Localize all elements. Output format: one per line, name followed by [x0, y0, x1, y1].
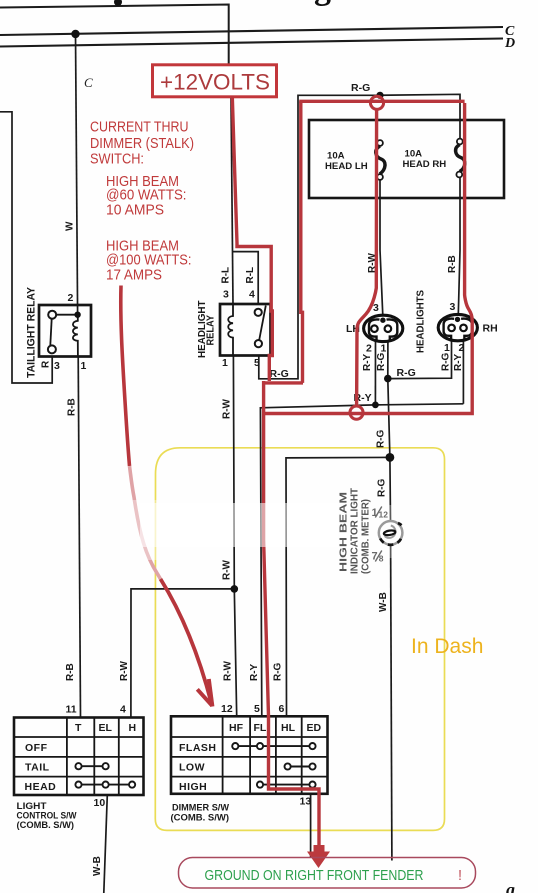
annotation +12VOLTS box — [153, 65, 277, 97]
svg-text:HIGH: HIGH — [179, 781, 207, 793]
wire bus C — [0, 27, 503, 35]
svg-text:1: 1 — [81, 360, 87, 372]
svg-text:g: g — [505, 880, 515, 893]
svg-text:R-B: R-B — [65, 663, 76, 681]
wire W: node C to taillight relay pin 2 — [76, 34, 78, 315]
svg-text:1: 1 — [444, 342, 450, 354]
svg-text:R-G: R-G — [376, 352, 387, 371]
annotation red path RH fuse to lamp to bus — [265, 103, 472, 414]
label 1/12 — [372, 507, 389, 520]
dimmer contacts HIGH row — [257, 782, 316, 788]
svg-text:!: ! — [458, 868, 462, 884]
svg-text:10 AMPS: 10 AMPS — [106, 203, 164, 219]
headlight LH — [364, 315, 403, 341]
svg-text:R-B: R-B — [447, 255, 458, 273]
svg-text:HIGH BEAM: HIGH BEAM — [339, 492, 350, 572]
svg-text:W-B: W-B — [378, 592, 389, 612]
node: junction dot top border — [114, 0, 122, 6]
svg-text:3: 3 — [450, 301, 456, 313]
svg-text:10: 10 — [94, 797, 106, 809]
headlight RH — [438, 314, 477, 340]
wire R-Y: RH headlight pin 2 down — [462, 340, 464, 404]
svg-text:FL: FL — [254, 722, 267, 734]
svg-text:ED: ED — [307, 722, 322, 734]
taillight relay box — [39, 305, 91, 357]
wire left edge to taillight relay pin 3 — [0, 112, 52, 383]
svg-text:+12VOLTS: +12VOLTS — [160, 70, 270, 95]
svg-text:R-W: R-W — [223, 660, 234, 681]
wire bus D — [0, 39, 503, 47]
node: junction dot indicator R-G — [386, 453, 395, 462]
svg-text:12: 12 — [221, 703, 233, 715]
dimmer contacts FLASH row — [232, 743, 315, 749]
svg-text:CONTROL S/W: CONTROL S/W — [17, 811, 77, 821]
svg-text:D: D — [504, 36, 515, 51]
wire R-G: LH headlight pin 1 down — [387, 341, 389, 379]
svg-text:8: 8 — [379, 554, 384, 564]
svg-text:3: 3 — [54, 360, 60, 372]
wire R-Y: LH headlight pin 2 down — [374, 341, 376, 405]
svg-text:R-W: R-W — [222, 398, 233, 419]
dimmer contacts LOW row — [285, 763, 316, 769]
svg-text:CURRENT THRU: CURRENT THRU — [90, 120, 189, 136]
wire R-G branch to dimmer pin 6 — [286, 457, 390, 716]
svg-text:LIGHT: LIGHT — [17, 801, 47, 811]
annotation red path +12V to headlight relay — [232, 97, 272, 382]
svg-text:DIMMER S/W: DIMMER S/W — [172, 803, 229, 813]
svg-text:2: 2 — [366, 343, 372, 355]
svg-text:HEADLIGHTS: HEADLIGHTS — [416, 290, 427, 353]
wire R-G feed to fuse RH — [380, 94, 460, 139]
wire R-Y bus to dimmer — [260, 404, 463, 717]
wire R-B: taillight relay pin 1 to light control pin 11 — [78, 356, 80, 717]
light control switch box and grid — [14, 718, 144, 796]
headlight relay internals — [228, 304, 266, 356]
svg-text:12: 12 — [379, 510, 389, 520]
wire R-W branch to light control pin 4 — [131, 589, 234, 718]
svg-text:TAILLIGHT RELAY: TAILLIGHT RELAY — [26, 286, 38, 378]
node: junction dot R-W tee — [231, 585, 239, 593]
label HIGH BEAM INDICATOR LIGHT (COMB. METER) — [339, 488, 372, 574]
svg-text:5: 5 — [254, 357, 260, 369]
annotation red loop at R-Y junction — [350, 406, 363, 419]
wire R-G: bus to indicator junction — [388, 379, 391, 522]
svg-text:RELAY: RELAY — [206, 315, 217, 346]
In Dash label — [411, 635, 483, 658]
svg-text:R-Y: R-Y — [362, 353, 373, 371]
svg-text:LOW: LOW — [179, 762, 205, 774]
svg-text:1: 1 — [372, 507, 378, 519]
wire R-B: RH fuse to RH headlight pin 3 — [458, 177, 460, 315]
fuse box — [309, 120, 504, 198]
svg-text:5: 5 — [254, 703, 260, 715]
watermark translucent band — [140, 503, 338, 547]
svg-text:EL: EL — [99, 722, 113, 734]
svg-text:R-B: R-B — [67, 398, 78, 416]
svg-text:W-B: W-B — [92, 856, 103, 876]
svg-text:HEAD LH: HEAD LH — [325, 161, 368, 172]
svg-text:17 AMPS: 17 AMPS — [106, 268, 162, 284]
svg-text:T: T — [75, 722, 82, 734]
svg-text:FLASH: FLASH — [179, 742, 217, 754]
svg-text:2: 2 — [68, 292, 74, 304]
wire R-G bus between headlights — [388, 340, 452, 379]
svg-text:C: C — [84, 75, 93, 90]
svg-text:13: 13 — [300, 796, 312, 808]
wire W-B: light control pin 10 down — [104, 795, 108, 893]
wire R-G: headlight relay pin 5 to fuse node — [259, 95, 380, 379]
svg-text:R-W: R-W — [119, 660, 130, 681]
svg-text:HF: HF — [229, 722, 244, 734]
svg-text:(COMB. S/W): (COMB. S/W) — [171, 813, 230, 823]
wire R-W: LH fuse to LH headlight pin 3 — [380, 180, 383, 316]
svg-text:6: 6 — [279, 703, 285, 715]
fuse 10A HEAD LH — [376, 140, 385, 180]
svg-text:HEAD: HEAD — [25, 781, 57, 793]
svg-text:RH: RH — [483, 323, 498, 335]
svg-text:R-G: R-G — [351, 82, 370, 94]
annotation red loop at fuse node — [370, 96, 383, 109]
svg-text:R-G: R-G — [270, 368, 289, 380]
svg-text:11: 11 — [66, 704, 77, 716]
node: junction dot R-G fuse feed — [376, 92, 383, 99]
high beam indicator lamp symbol — [379, 521, 403, 545]
svg-text:@60 WATTS:: @60 WATTS: — [106, 188, 187, 204]
svg-text:4: 4 — [120, 704, 126, 716]
wire headlight relay pins 3-4 feed — [233, 252, 258, 304]
headlight relay box — [220, 304, 271, 356]
in-dash area yellow outline — [155, 448, 444, 831]
svg-text:(COMB. S/W): (COMB. S/W) — [17, 820, 75, 830]
svg-text:R-G: R-G — [273, 662, 284, 681]
node: junction dot LH R-Y on bus — [372, 402, 379, 409]
wire top border line with corner to +12V feed — [0, 5, 229, 65]
label 7/8 — [372, 551, 384, 564]
taillight relay internals — [48, 311, 78, 356]
node: taillight relay pin2 dot — [74, 312, 80, 318]
svg-text:2: 2 — [459, 342, 465, 354]
svg-text:(COMB. METER): (COMB. METER) — [361, 499, 372, 574]
annotation arrowhead at dimmer — [197, 689, 212, 706]
annotation red path LH fuse to lamp — [357, 110, 377, 407]
node: junction dot on bus C — [71, 30, 79, 38]
wire R-W: headlight relay pin 1 to dimmer pin 12 — [233, 356, 236, 717]
svg-text:3: 3 — [223, 289, 229, 301]
wire dimmer pin 13 to ground — [310, 794, 312, 858]
svg-text:SWITCH:: SWITCH: — [90, 152, 144, 168]
svg-text:@100 WATTS:: @100 WATTS: — [106, 253, 192, 269]
svg-text:HEAD RH: HEAD RH — [403, 159, 447, 170]
light control contacts TAIL row — [75, 763, 108, 769]
svg-text:3: 3 — [373, 302, 379, 314]
annotation text current thru dimmer — [90, 120, 194, 284]
svg-text:1: 1 — [222, 357, 228, 369]
svg-text:R-Y: R-Y — [249, 663, 260, 681]
annotation curved arrow to dimmer switch — [121, 286, 130, 467]
svg-text:W: W — [65, 221, 76, 231]
svg-text:DIMMER (STALK): DIMMER (STALK) — [90, 136, 194, 152]
svg-text:R-Y: R-Y — [453, 353, 464, 371]
svg-text:In Dash: In Dash — [411, 635, 483, 658]
svg-text:R-G: R-G — [377, 478, 388, 497]
annotation ground callout box — [179, 858, 476, 889]
svg-text:7: 7 — [372, 551, 378, 563]
svg-text:R-G: R-G — [397, 367, 416, 379]
svg-text:R: R — [41, 360, 52, 368]
svg-text:GROUND ON RIGHT FRONT FENDER: GROUND ON RIGHT FRONT FENDER — [205, 868, 424, 884]
node: junction dot R-G bus — [384, 375, 392, 383]
svg-text:g: g — [314, 0, 331, 7]
dimmer switch box and grid — [171, 716, 328, 794]
annotation red path relay R-G return — [264, 101, 303, 383]
annotation red arrow to ground — [307, 845, 330, 868]
annotation red path bus to dimmer and ground — [264, 381, 319, 846]
svg-text:R-G: R-G — [376, 429, 387, 448]
svg-text:R-L: R-L — [221, 267, 232, 284]
svg-text:R-G: R-G — [441, 352, 452, 371]
wire headlight relay pin 3 up — [231, 97, 233, 304]
svg-text:INDICATOR LIGHT: INDICATOR LIGHT — [350, 488, 361, 574]
svg-text:R-L: R-L — [245, 267, 256, 284]
svg-text:OFF: OFF — [25, 742, 48, 754]
svg-text:HL: HL — [281, 722, 296, 734]
svg-text:H: H — [129, 722, 137, 734]
fuse 10A HEAD RH — [456, 139, 465, 178]
light control contacts HEAD row — [75, 782, 135, 788]
annotation red path fuse feed bus — [299, 100, 464, 103]
svg-text:4: 4 — [249, 289, 255, 301]
svg-text:TAIL: TAIL — [25, 762, 50, 774]
svg-text:R-W: R-W — [222, 559, 233, 580]
wire W-B: indicator lamp to ground — [391, 545, 392, 860]
